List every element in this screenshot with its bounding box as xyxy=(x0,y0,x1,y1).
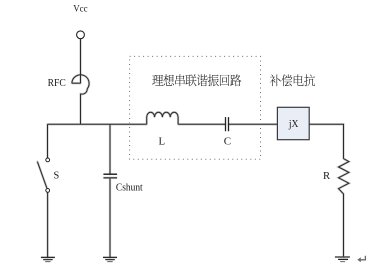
svg-text:R: R xyxy=(323,170,331,182)
svg-text:Vcc: Vcc xyxy=(73,5,87,15)
svg-text:Cshunt: Cshunt xyxy=(116,182,143,194)
svg-text:S: S xyxy=(54,171,60,182)
svg-text:L: L xyxy=(159,136,166,148)
svg-text:RFC: RFC xyxy=(48,77,66,89)
svg-text:C: C xyxy=(224,135,231,147)
svg-text:jX: jX xyxy=(288,118,299,130)
